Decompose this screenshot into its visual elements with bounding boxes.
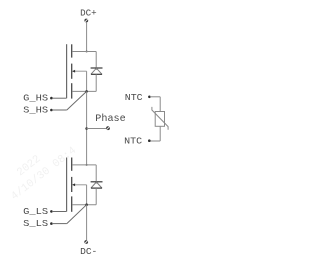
transistor Q1 body-to-source vertical [86, 71, 88, 91]
transistor Q2 (low-side MOSFET) gate bar [66, 158, 68, 212]
diode D2 cathode bar [91, 181, 103, 183]
port DC- terminal slash [85, 240, 88, 243]
svg-text:DC+: DC+ [80, 7, 97, 18]
junction Q2 drain node [86, 164, 88, 166]
diode D1 anode wire [95, 74, 97, 91]
diode D1 (Q1 body diode) cathode wire [95, 52, 97, 69]
junction Q2 source node [85, 203, 88, 206]
wire S_LS diagonal to source junction [67, 205, 87, 224]
pin NTC top dot [148, 96, 151, 99]
pin NTC bottom dot [148, 139, 151, 142]
diode D1 apex blob [95, 68, 97, 70]
diode D2 anode wire [95, 188, 97, 205]
transistor Q1 source lead [72, 90, 96, 92]
transistor Q1 channel dash bottom [71, 83, 73, 98]
resistor RT1 NTC mark [152, 107, 168, 130]
wire NTC bottom vertical [159, 126, 161, 141]
wire G_LS to Q2 gate [52, 211, 67, 213]
junction Q1 source node [85, 90, 88, 93]
transistor Q1 drain lead [72, 51, 96, 53]
port Phase terminal circle [106, 126, 110, 130]
wire S_HS diagonal to source junction [67, 91, 87, 110]
svg-text:S_HS: S_HS [23, 104, 49, 115]
diode D1 cathode bar [91, 67, 103, 69]
junction Q1 drain node [86, 51, 88, 53]
transistor Q2 body arrow line [72, 184, 87, 186]
pin G_HS dot [50, 97, 53, 100]
wire NTC top horizontal [150, 96, 160, 98]
transistor Q1 channel dash middle [71, 64, 73, 79]
wire G_HS to Q1 gate [52, 97, 67, 99]
svg-text:Phase: Phase [95, 113, 125, 125]
wire DC+ to Q1 drain [86, 23, 88, 52]
wire Phase tap [87, 128, 107, 130]
transistor Q2 channel dash bottom [71, 196, 73, 211]
wire Q2 source to DC- [86, 205, 88, 240]
svg-text:NTC: NTC [125, 92, 143, 103]
wire S_LS horizontal [52, 223, 67, 225]
port DC- terminal circle [84, 240, 88, 244]
junction Phase tap node [85, 127, 88, 130]
resistor RT1 (NTC thermistor) body [155, 112, 164, 127]
svg-text:G_HS: G_HS [23, 93, 49, 104]
transistor Q2 body arrowhead [72, 183, 75, 186]
svg-text:G_LS: G_LS [23, 206, 49, 217]
transistor Q2 channel dash middle [71, 177, 73, 192]
diode D2 triangle sides [91, 182, 102, 188]
pin S_LS dot [50, 222, 53, 225]
diode D2 (Q2 body diode) cathode wire [95, 165, 97, 182]
diode D2 triangle base [91, 187, 102, 189]
wire phase vertical (Q1 source to Q2 drain) [86, 91, 88, 164]
port DC+ terminal circle [84, 19, 88, 23]
transistor Q2 body-to-source vertical [86, 185, 88, 205]
port DC+ terminal slash [85, 19, 88, 22]
wire NTC bottom horizontal [150, 140, 160, 142]
pin S_HS dot [50, 109, 53, 112]
diode D2 apex blob [95, 181, 97, 183]
wire S_HS horizontal [52, 109, 67, 111]
transistor Q1 channel dash top [71, 44, 73, 57]
wire NTC top vertical [159, 97, 161, 112]
transistor Q1 (high-side MOSFET) gate bar [66, 44, 68, 98]
diode D1 triangle sides [91, 68, 102, 74]
pin G_LS dot [50, 210, 53, 213]
transistor Q1 body arrowhead [72, 70, 75, 73]
port Phase terminal slash [107, 127, 110, 130]
transistor Q2 channel dash top [71, 158, 73, 171]
svg-text:S_LS: S_LS [23, 218, 49, 229]
svg-text:DC-: DC- [80, 246, 97, 257]
svg-text:NTC: NTC [124, 135, 143, 146]
diode D1 triangle base [91, 73, 102, 75]
transistor Q1 body arrow line [72, 70, 87, 72]
transistor Q2 drain lead [72, 164, 96, 166]
transistor Q2 source lead [72, 204, 96, 206]
